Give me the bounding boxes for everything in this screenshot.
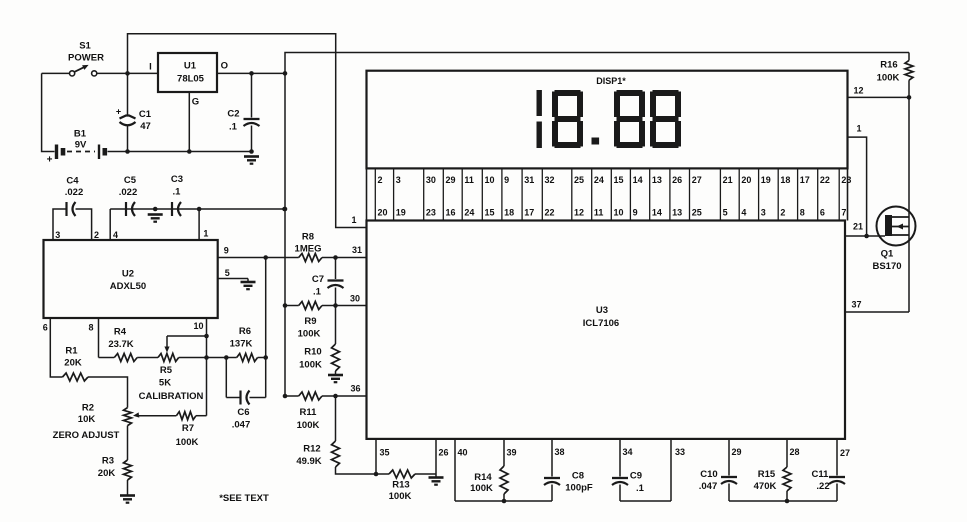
svg-text:40: 40 [458,448,468,458]
svg-text:2: 2 [780,208,785,218]
svg-text:7: 7 [841,208,846,218]
svg-text:U2: U2 [122,269,134,280]
node C5 ground junction [153,207,158,212]
wire pin8 to R4 [99,357,115,359]
wire V+ battery rail (top) [128,34,367,228]
svg-text:26: 26 [439,448,449,458]
svg-text:C3: C3 [171,174,183,185]
svg-text:R11: R11 [300,407,318,418]
svg-text:18: 18 [780,175,790,185]
svg-text:6: 6 [43,323,48,333]
svg-text:24: 24 [464,208,474,218]
svg-text:R9: R9 [304,316,316,327]
svg-text:47: 47 [140,121,151,132]
wire R11 leads [285,395,299,397]
wiper R5 [164,336,206,353]
wire U2 pin 9 out [218,257,299,259]
svg-text:C4: C4 [66,176,79,187]
display decimal point [592,138,600,145]
resistor R1 [63,373,89,381]
svg-text:10K: 10K [78,414,96,425]
svg-text:28: 28 [790,447,800,457]
ground pin 26 [435,474,437,478]
display digit 8 (second) [614,90,645,148]
wire U2 pin 8 drop [98,318,100,358]
svg-text:Q1: Q1 [881,249,894,260]
svg-text:3: 3 [55,230,60,240]
svg-text:15: 15 [614,175,624,185]
svg-text:36: 36 [350,384,360,394]
node pin9/R6 rail junction [263,255,268,260]
node C1 bottom [125,149,130,154]
wire battery bottom to C2 [128,151,252,153]
node R9/C7/R10 junction [333,303,338,308]
svg-text:1: 1 [203,229,208,239]
svg-text:33: 33 [675,447,685,457]
wire U3 pin 26 [435,439,437,474]
svg-text:78L05: 78L05 [177,74,205,85]
resistor R6 [237,354,258,362]
svg-text:25: 25 [692,208,702,218]
svg-text:12: 12 [853,86,863,96]
display DISP1 box [367,71,848,169]
svg-text:C5: C5 [124,175,137,186]
svg-text:R5: R5 [160,365,173,376]
display digit 8 (first) [552,90,583,148]
svg-text:.1: .1 [636,483,645,494]
wire U3 pin 35 [375,439,377,474]
svg-text:DISP1*: DISP1* [596,76,626,86]
wire switch to U1 input [97,72,158,74]
capacitor C1 [120,73,136,151]
node C2 top [249,71,254,76]
svg-text:3: 3 [761,208,766,218]
wire auto-zero loop bottom [729,500,837,502]
wire R9 leads [285,305,299,307]
wire display pin 1 stub [848,137,867,236]
ADC U3 box [367,221,846,439]
ground C2 [244,155,259,158]
resistor R7 [176,412,196,420]
node C3 output junction [282,207,287,212]
node pin10 row [204,355,209,360]
svg-text:R1: R1 [65,346,78,357]
resistor R8 [299,254,322,262]
display pin table grid [367,169,848,221]
node R8/C7 junction [333,255,338,260]
wire R6 leads [226,357,236,359]
svg-text:R2: R2 [82,403,94,414]
wire +5V mid rail [284,73,286,396]
capacitor C4 [53,202,92,240]
node sensor pin1 junction [197,207,202,212]
capacitor C8 [551,439,553,477]
node R16/pin12 [907,95,912,100]
potentiometer R5 [158,354,179,362]
svg-text:20K: 20K [64,358,82,369]
wire U1 output [217,72,285,74]
svg-text:9: 9 [224,246,229,256]
svg-text:+: + [47,155,53,166]
node pin35/R13 [374,472,379,477]
capacitor C6 loop [226,358,265,405]
svg-text:17: 17 [800,175,810,185]
svg-text:6: 6 [820,208,825,218]
svg-text:BS170: BS170 [872,261,901,272]
potentiometer R2 [124,408,132,426]
wire R12 row to R13 [376,473,389,475]
wire U3 pin 40 [454,439,456,501]
svg-text:20: 20 [378,208,388,218]
resistor R12 [335,396,337,441]
capacitor C11 [836,439,838,476]
ground U2 pin 5 [247,279,249,283]
node R14 bottom [502,499,507,504]
svg-text:C11: C11 [812,469,830,480]
regulator U1 box [158,53,217,92]
svg-text:34: 34 [623,447,633,457]
node U1 G junction [187,149,192,154]
svg-text:R4: R4 [114,327,127,338]
svg-text:1: 1 [351,215,356,225]
svg-text:17: 17 [524,208,534,218]
svg-text:*SEE TEXT: *SEE TEXT [219,493,269,504]
wire U3 pin 33 [670,439,672,501]
display digit 1 [537,90,542,148]
U3 pin numbers (bottom row) [378,208,847,218]
display digit 8 (third) [650,90,681,148]
svg-text:14: 14 [633,175,643,185]
wire R7 to pin10 line [196,415,207,417]
svg-text:R12: R12 [303,444,320,455]
svg-text:R3: R3 [102,456,114,467]
svg-text:9: 9 [504,175,509,185]
wire node to pin9 rail [265,258,267,358]
svg-text:16: 16 [446,208,456,218]
svg-text:.1: .1 [313,287,322,298]
node rail/C3 bus [283,207,288,212]
wire battery to switch [42,72,70,74]
svg-text:11: 11 [594,208,604,218]
node rail/R11 [283,394,288,399]
svg-text:C7: C7 [312,274,324,285]
svg-text:14: 14 [652,208,662,218]
switch S1 [70,65,97,76]
svg-text:100K: 100K [176,437,199,448]
svg-text:ZERO ADJUST: ZERO ADJUST [53,430,120,441]
accelerometer U2 box [44,240,218,318]
svg-text:POWER: POWER [68,53,104,64]
resistor R16 [908,53,910,61]
wire R1 to R2 [88,377,128,408]
svg-text:18: 18 [504,208,514,218]
node gate junction [864,234,869,239]
svg-text:15: 15 [485,208,495,218]
svg-text:100K: 100K [877,73,900,84]
svg-text:100K: 100K [298,329,321,340]
svg-text:13: 13 [652,175,662,185]
svg-text:21: 21 [723,175,733,185]
wire display pin 12 [848,96,910,98]
node R11/R12 junction [333,394,338,399]
svg-text:10: 10 [485,175,495,185]
svg-text:27: 27 [692,175,702,185]
svg-text:100pF: 100pF [565,483,593,494]
svg-text:30: 30 [350,294,360,304]
battery B1 [57,145,128,160]
wire R13 to pin 26 [415,473,436,475]
wire U2 pin 10 drop [206,318,208,416]
svg-text:R14: R14 [474,472,492,483]
svg-text:12: 12 [574,208,584,218]
resistor R9 [299,302,322,310]
wire R5 to R6 node [179,357,227,359]
svg-text:30: 30 [426,175,436,185]
svg-text:C10: C10 [700,469,717,480]
svg-text:31: 31 [352,245,362,255]
svg-text:8: 8 [800,208,805,218]
svg-text:R15: R15 [758,469,776,480]
wire U1 G pin [188,92,190,152]
node +5V rail corner [283,71,288,76]
svg-text:38: 38 [555,447,565,457]
svg-text:.1: .1 [173,187,182,198]
svg-text:C1: C1 [139,109,152,120]
resistor R11 [299,392,322,400]
capacitor C10 [728,439,730,476]
resistor R4 [114,354,137,362]
svg-text:10: 10 [193,321,203,331]
resistor R10 [335,306,337,345]
wire R2 to R3 [127,426,129,460]
node battery/V+ junction [125,71,130,76]
svg-text:C6: C6 [237,407,249,418]
svg-text:R16: R16 [880,60,897,71]
svg-text:.22: .22 [816,481,829,492]
svg-text:2: 2 [94,230,99,240]
svg-text:1: 1 [856,124,861,134]
svg-text:20: 20 [741,175,751,185]
svg-text:.022: .022 [119,187,138,198]
resistor R3 [124,460,132,480]
svg-text:C8: C8 [572,471,584,482]
svg-text:4: 4 [113,230,118,240]
wire +5V rail (upper) [285,53,909,74]
resistor R13 [389,470,415,478]
wire oscillator loop bottom [455,500,552,502]
svg-text:9: 9 [633,208,638,218]
wire R3 to ground [127,480,129,496]
svg-text:ICL7106: ICL7106 [583,318,619,329]
capacitor C9 [619,439,621,477]
svg-text:1MEG: 1MEG [295,244,322,255]
svg-text:9V: 9V [75,140,87,151]
svg-text:29: 29 [446,175,456,185]
svg-text:R7: R7 [182,423,194,434]
ground R10 [328,374,343,377]
capacitor C7 [328,258,344,306]
node R6 right [263,355,268,360]
svg-text:.022: .022 [65,187,84,198]
node C2 bottom [249,149,254,154]
ground C5/C3 junction [148,213,163,216]
svg-text:5: 5 [225,268,230,278]
svg-text:19: 19 [761,175,771,185]
svg-text:8: 8 [88,323,93,333]
svg-text:35: 35 [380,448,390,458]
svg-text:13: 13 [672,208,682,218]
svg-text:2: 2 [378,175,383,185]
svg-text:39: 39 [507,448,517,458]
wire R16 to Q1 drain [908,97,910,312]
svg-text:.047: .047 [232,420,251,431]
svg-text:.047: .047 [699,481,718,492]
svg-text:23: 23 [426,208,436,218]
svg-text:R8: R8 [302,232,314,243]
svg-text:24: 24 [594,175,604,185]
svg-text:29: 29 [732,447,742,457]
wire sensor caps bus [110,208,284,210]
svg-text:21: 21 [853,222,863,232]
wire battery left drop [42,73,55,151]
svg-text:CALIBRATION: CALIBRATION [139,391,204,402]
wire R4 to R5 [137,357,158,359]
svg-text:100K: 100K [297,420,320,431]
node R15 bottom [785,499,790,504]
capacitor C3 [172,202,199,240]
svg-text:100K: 100K [470,483,493,494]
svg-text:11: 11 [464,175,474,185]
display pin numbers (top row) [378,175,852,185]
svg-text:G: G [192,97,199,108]
svg-text:22: 22 [820,175,830,185]
svg-text:U1: U1 [184,61,197,72]
resistor R15 [786,439,788,467]
svg-text:100K: 100K [389,491,412,502]
node rail/R9 [283,303,288,308]
svg-text:4: 4 [741,208,746,218]
wire U2 pin 6 drop [50,318,62,377]
ground R3 [120,494,135,497]
svg-text:37: 37 [851,300,861,310]
resistor R14 [503,439,505,466]
svg-text:O: O [221,61,228,72]
svg-text:R6: R6 [239,326,251,337]
wiper R2 [133,412,176,417]
svg-text:ADXL50: ADXL50 [110,281,146,292]
node wiper/pin10 [204,334,209,339]
svg-text:C2: C2 [227,109,239,120]
svg-text:10: 10 [614,208,624,218]
svg-text:20K: 20K [98,468,116,479]
svg-text:470K: 470K [754,481,777,492]
svg-text:C9: C9 [630,471,642,482]
svg-text:5: 5 [723,208,728,218]
svg-text:R10: R10 [304,347,321,358]
svg-text:19: 19 [396,208,406,218]
capacitor C5 [110,202,135,240]
svg-text:32: 32 [545,175,555,185]
svg-text:31: 31 [524,175,534,185]
svg-text:23.7K: 23.7K [108,339,133,350]
svg-text:100K: 100K [299,360,322,371]
wire U3 pin 21 to gate [845,235,885,237]
svg-text:25: 25 [574,175,584,185]
node R6 left [224,355,229,360]
svg-text:U3: U3 [596,305,608,316]
wire U3 pin 37 [845,311,909,313]
svg-text:137K: 137K [230,339,253,350]
svg-text:23: 23 [841,175,851,185]
svg-text:3: 3 [396,175,401,185]
wire C9 loop bottom [620,500,671,502]
svg-text:49.9K: 49.9K [296,456,321,467]
svg-text:B1: B1 [74,129,87,140]
svg-text:22: 22 [545,208,555,218]
capacitor C2 [244,73,260,151]
svg-text:.1: .1 [229,122,238,133]
svg-text:+: + [116,107,121,117]
svg-text:5K: 5K [159,378,171,389]
svg-text:S1: S1 [79,41,91,52]
svg-text:27: 27 [840,448,850,458]
wire U2 pin 5 [218,278,248,280]
svg-text:R13: R13 [392,480,409,491]
wire R8 to U3 pin31 [322,257,367,259]
transistor Q1 [877,207,916,246]
svg-text:26: 26 [672,175,682,185]
svg-text:I: I [149,62,152,73]
